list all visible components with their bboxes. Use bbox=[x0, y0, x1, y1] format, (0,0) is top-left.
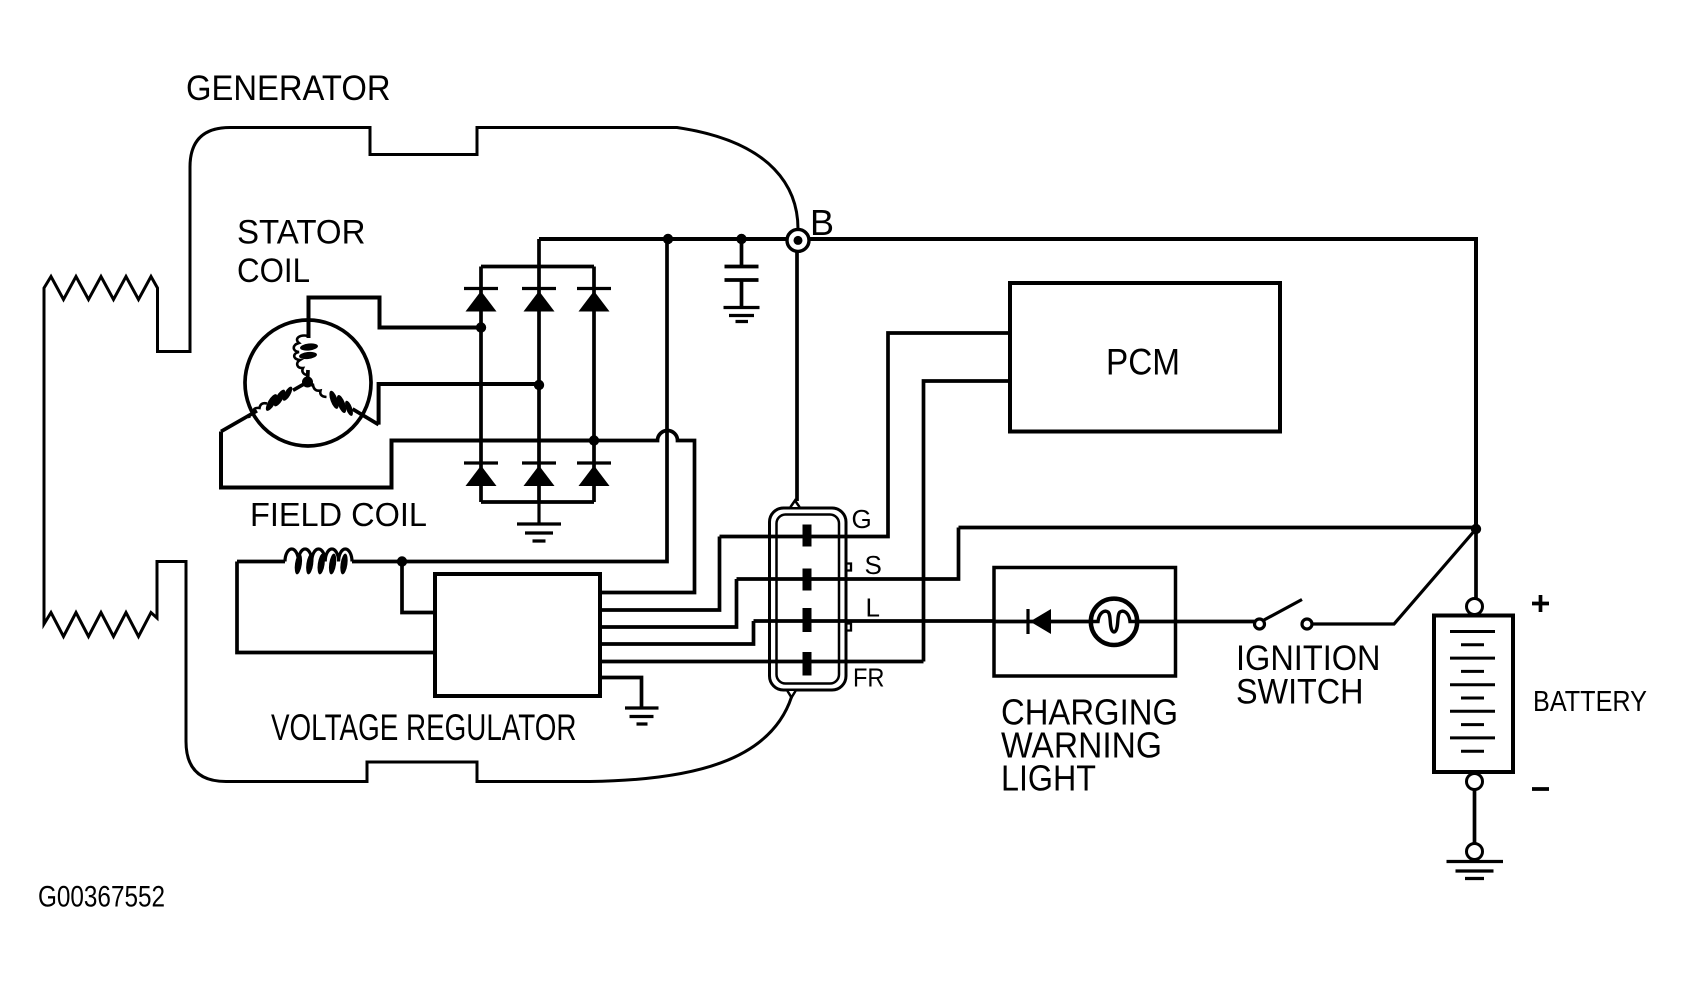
svg-text:G: G bbox=[852, 504, 872, 534]
svg-text:B: B bbox=[810, 202, 834, 243]
svg-text:BATTERY: BATTERY bbox=[1533, 686, 1647, 718]
svg-text:FR: FR bbox=[853, 663, 885, 693]
svg-text:LIGHT: LIGHT bbox=[1001, 758, 1096, 799]
svg-text:STATOR: STATOR bbox=[237, 214, 366, 252]
svg-text:GENERATOR: GENERATOR bbox=[186, 68, 391, 108]
svg-text:L: L bbox=[866, 593, 880, 623]
svg-text:SWITCH: SWITCH bbox=[1236, 673, 1364, 712]
svg-text:FIELD COIL: FIELD COIL bbox=[250, 496, 427, 533]
svg-text:COIL: COIL bbox=[237, 252, 310, 290]
svg-text:G00367552: G00367552 bbox=[38, 881, 165, 914]
svg-text:PCM: PCM bbox=[1106, 342, 1180, 383]
svg-text:S: S bbox=[865, 550, 882, 580]
svg-text:VOLTAGE REGULATOR: VOLTAGE REGULATOR bbox=[271, 707, 577, 748]
